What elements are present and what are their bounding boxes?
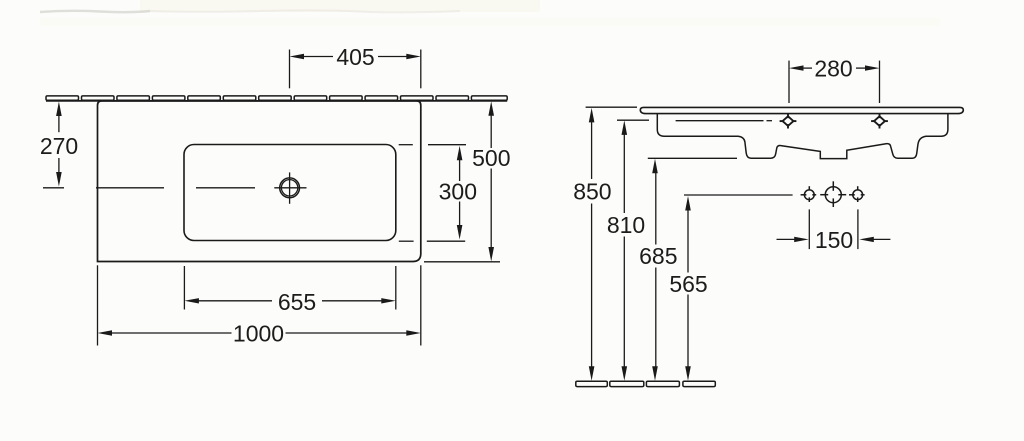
svg-text:280: 280 <box>814 56 852 82</box>
faucet hole symbol left (front view) <box>780 114 797 129</box>
svg-text:685: 685 <box>639 243 677 269</box>
svg-text:270: 270 <box>40 133 78 159</box>
small hole right <box>849 186 865 202</box>
dimension 150 <box>777 209 891 249</box>
dimension 655 <box>184 266 395 310</box>
svg-text:565: 565 <box>669 271 707 297</box>
svg-text:150: 150 <box>815 227 853 253</box>
dimension 500 <box>424 101 500 261</box>
tile strip (countertop rear edge) <box>46 96 507 100</box>
dimension 810 <box>617 120 649 381</box>
faint watermark smudge <box>40 0 940 26</box>
drain crosshair <box>289 172 291 203</box>
faucet hole symbol right (front view) <box>871 114 888 129</box>
basin apron with underside profile <box>657 114 948 159</box>
dimension 300 <box>399 145 466 242</box>
svg-text:810: 810 <box>607 212 645 238</box>
dimension 280 <box>789 61 880 103</box>
drain circles <box>280 178 300 198</box>
dimension 565 <box>685 196 691 381</box>
console slab (top bar) <box>640 107 963 113</box>
svg-text:500: 500 <box>472 145 510 171</box>
washbasin outer outline (top view) <box>98 101 421 262</box>
inner bowl outline <box>184 145 396 241</box>
dimension 1000 <box>98 265 421 345</box>
svg-text:1000: 1000 <box>233 321 284 347</box>
svg-text:655: 655 <box>278 289 316 315</box>
slab edge line under tiles <box>46 100 507 102</box>
dimension 270 <box>56 102 62 187</box>
holes centerline / 565 extension <box>684 194 793 196</box>
svg-text:850: 850 <box>573 178 611 204</box>
floor tiles <box>576 381 716 386</box>
faucet centerline (front view) <box>676 120 772 122</box>
dimension 850 <box>586 107 637 381</box>
big hole center <box>820 181 846 207</box>
dimension 405 <box>290 50 421 89</box>
svg-text:300: 300 <box>439 179 477 205</box>
horizontal centerline dashes <box>43 187 255 189</box>
svg-text:405: 405 <box>336 44 374 70</box>
dimension 685 <box>648 158 737 380</box>
small hole left <box>801 186 817 202</box>
